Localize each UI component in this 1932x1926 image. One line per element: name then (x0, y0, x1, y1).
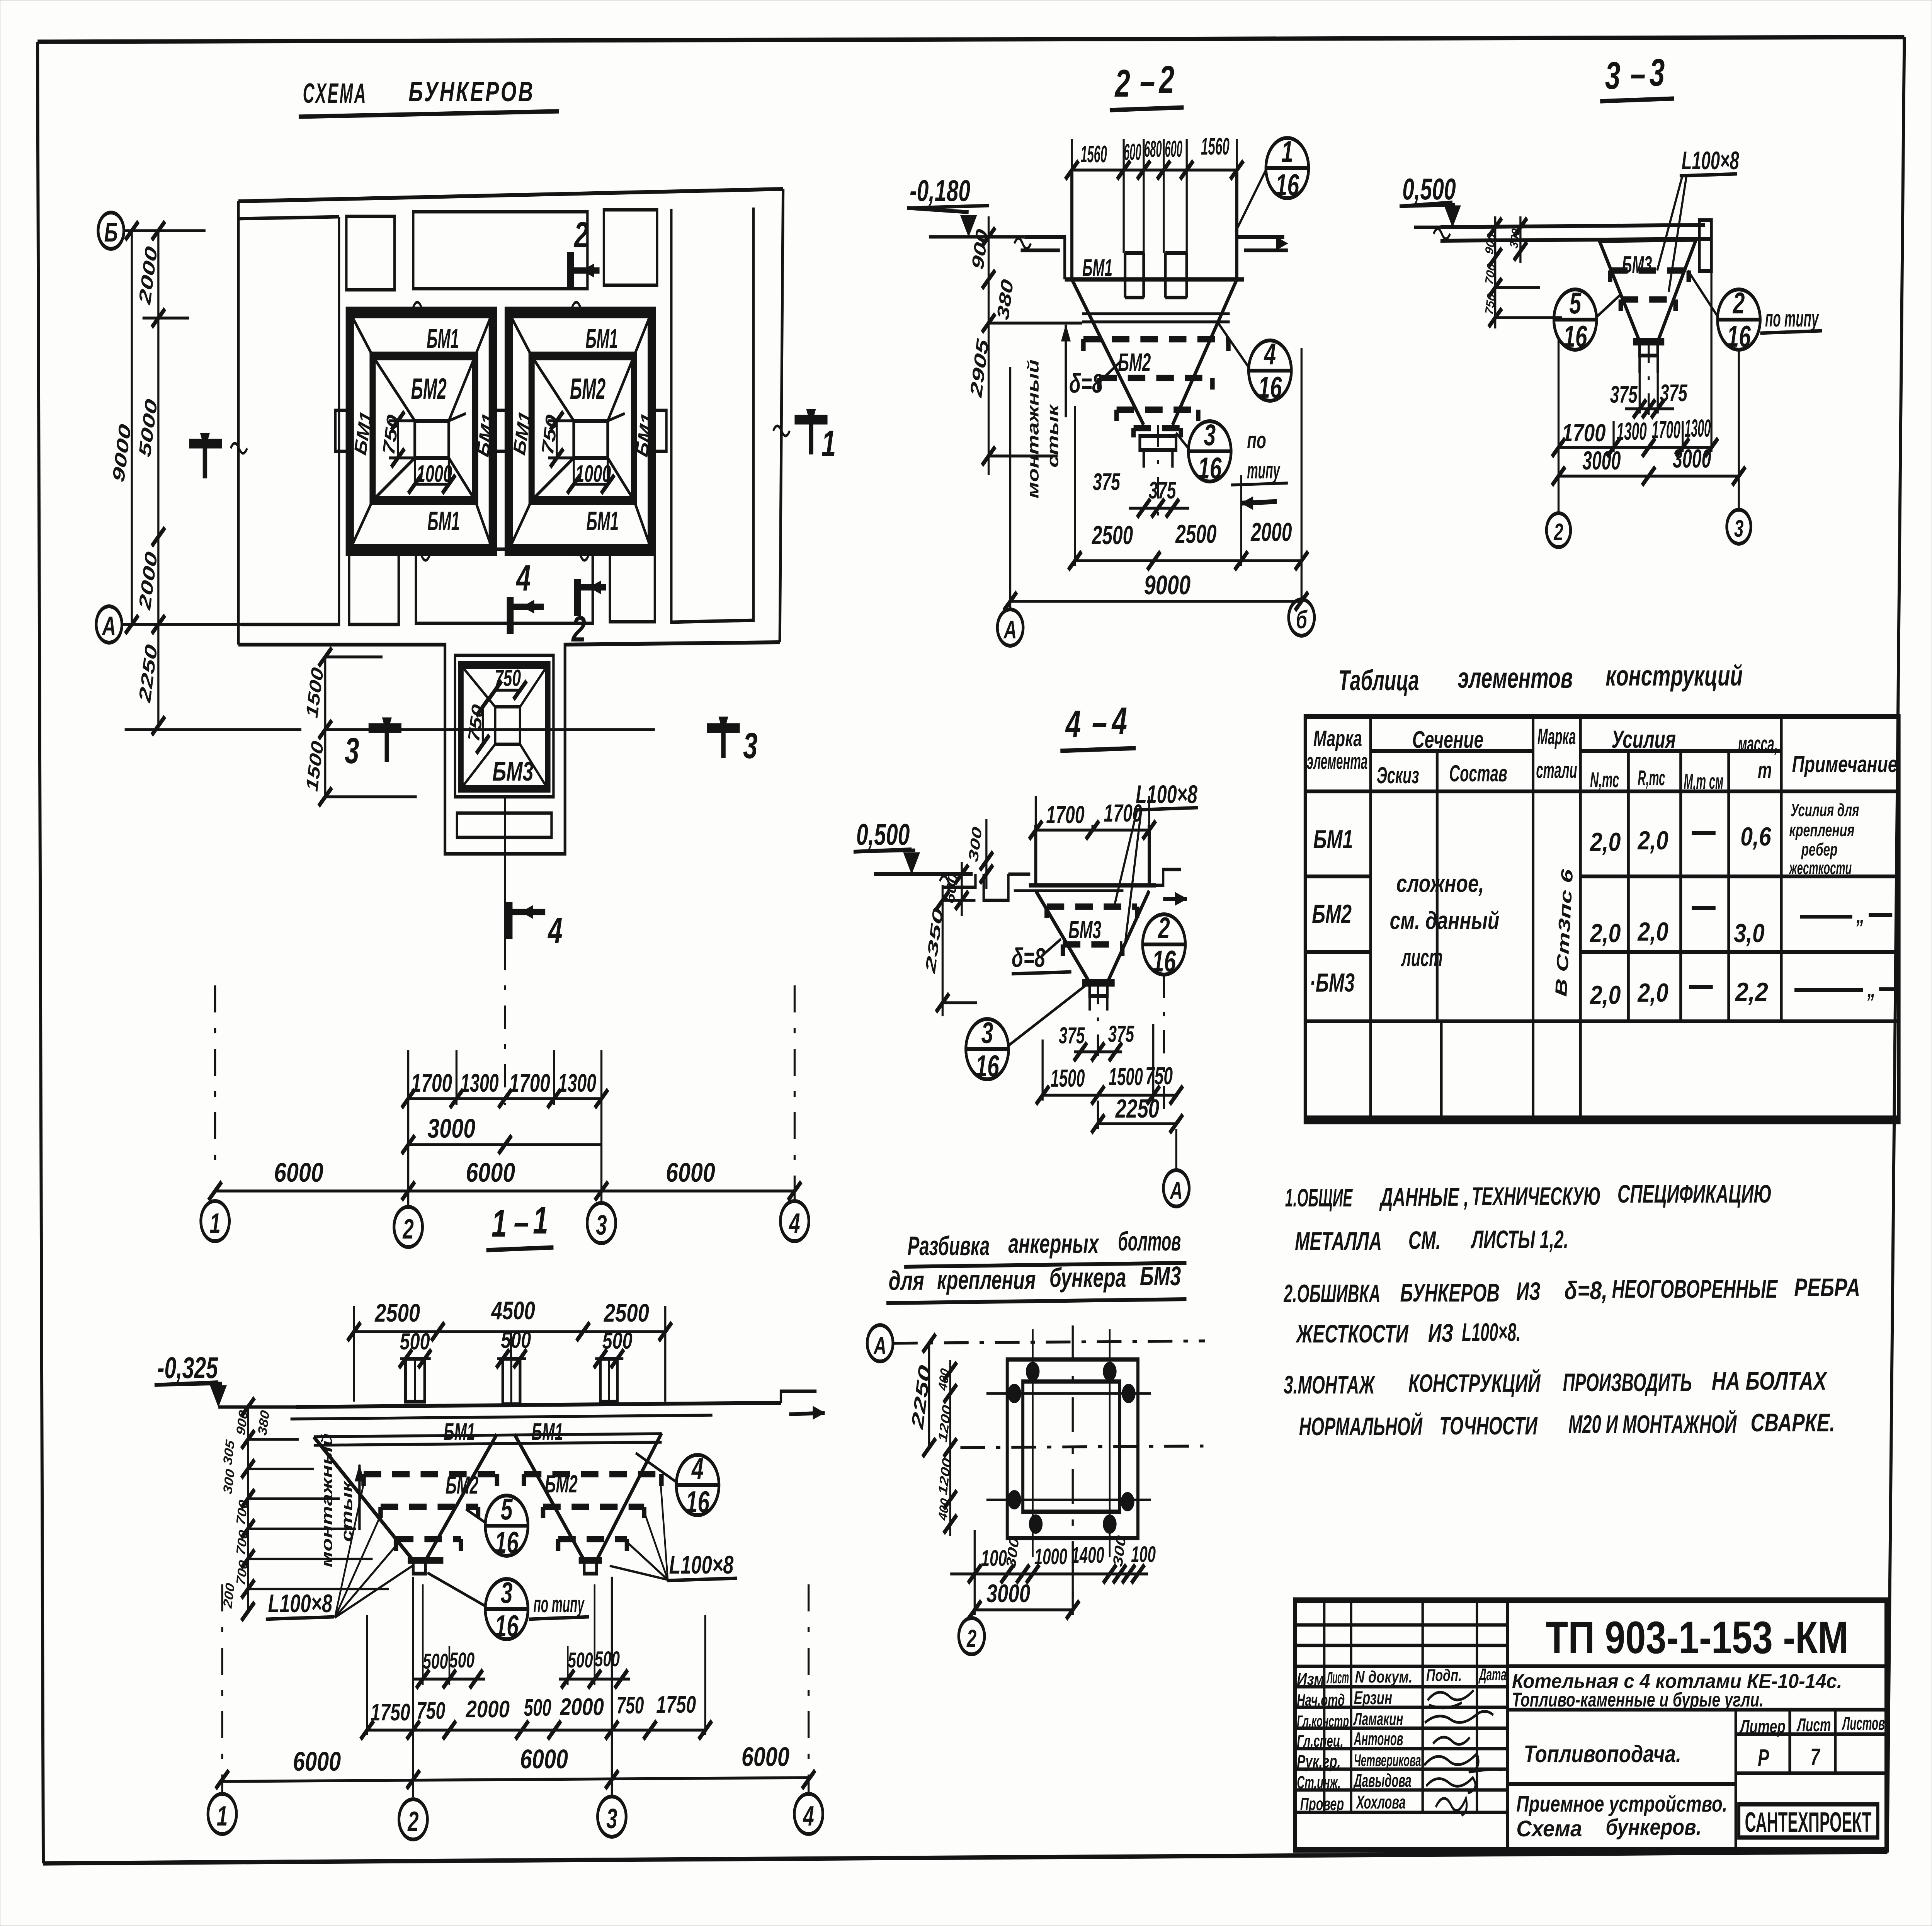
section 3 mark right (707, 723, 740, 733)
2-2 level line (929, 235, 1024, 239)
svg-text:16: 16 (686, 1485, 710, 1519)
title block big cell lines (1508, 1664, 1887, 1668)
svg-text:1400: 1400 (1071, 1542, 1104, 1568)
svg-text:Гл.спец.: Гл.спец. (1297, 1732, 1344, 1751)
svg-text:Приемное устройство.: Приемное устройство. (1516, 1791, 1727, 1817)
1-1 hopper tops thin lines (314, 1434, 662, 1437)
svg-text:стали: стали (1536, 757, 1577, 783)
svg-text:крепления: крепления (1789, 821, 1855, 840)
svg-text:Топливо-каменные и бурые угли.: Топливо-каменные и бурые угли. (1512, 1688, 1764, 1711)
bunker corner diagonals of opening (350, 313, 372, 356)
svg-text:Лист: Лист (1327, 1668, 1349, 1688)
svg-text:7: 7 (1810, 1744, 1820, 1771)
2-2 hopper top plates (1082, 312, 1230, 315)
svg-text:болтов: болтов (1118, 1226, 1181, 1256)
sheet border frame top (37, 37, 1904, 42)
svg-text:1750: 1750 (371, 1699, 410, 1726)
3-3 hopper walls (1599, 241, 1639, 342)
svg-text:δ=8,: δ=8, (1564, 1276, 1607, 1305)
svg-text:900: 900 (1483, 232, 1498, 255)
svg-text:Р: Р (1758, 1745, 1769, 1771)
svg-text:3: 3 (501, 1576, 513, 1610)
svg-text:БМ1: БМ1 (587, 506, 619, 536)
anchor plan bolt axis lines horizontal (986, 1392, 1151, 1395)
3-3 dim chain 1700/1300/1700/1300 (1557, 340, 1560, 514)
svg-text:БМ2: БМ2 (570, 372, 605, 405)
bunker opening thin edge (506, 308, 655, 554)
svg-text:1750: 1750 (656, 1691, 696, 1718)
svg-text:–: – (514, 1201, 529, 1244)
2-2 stiffener row 3 (1114, 410, 1120, 421)
svg-text:Антонов: Антонов (1354, 1728, 1403, 1749)
svg-text:3000: 3000 (986, 1579, 1031, 1608)
svg-text:0,500: 0,500 (856, 818, 910, 852)
svg-text:„: „ (1856, 902, 1864, 928)
dim 1000 horizontal inside bunker (415, 483, 449, 486)
svg-text:ИЗ: ИЗ (1516, 1277, 1540, 1306)
4-4 bin walls above (1034, 825, 1038, 885)
svg-text:L100×8: L100×8 (669, 1551, 734, 1579)
svg-text:1700: 1700 (1104, 799, 1142, 827)
svg-text:16: 16 (975, 1050, 999, 1083)
svg-text:2500: 2500 (1175, 520, 1216, 549)
table bottom area verticals (1439, 1021, 1443, 1122)
svg-text:жесткости: жесткости (1789, 859, 1852, 878)
svg-text:БМ2: БМ2 (446, 1471, 478, 1499)
svg-text:300: 300 (1507, 227, 1522, 249)
anchor plan centre lines (960, 1446, 1203, 1448)
svg-text:элементов: элементов (1458, 662, 1573, 694)
svg-text:δ=8: δ=8 (1012, 943, 1045, 973)
svg-text:δ=8: δ=8 (1069, 368, 1103, 398)
plan bottom small panel right (610, 550, 655, 622)
1-1 floor slab line (296, 1403, 781, 1407)
svg-text:1300: 1300 (558, 1069, 596, 1097)
svg-text:Разбивка: Разбивка (908, 1231, 990, 1261)
1-1 grid circles 1-4 (221, 1584, 224, 1793)
svg-text:Усилия для: Усилия для (1791, 801, 1859, 820)
anchor plan axis А circle (867, 1325, 893, 1361)
plan left slab panel (241, 217, 339, 624)
svg-text:2,2: 2,2 (1735, 978, 1768, 1007)
2-2 grid circle б (1300, 348, 1303, 599)
section 1 mark right of plan (794, 415, 827, 425)
plan grid circle 2 (394, 1207, 423, 1247)
svg-text:элемента: элемента (1307, 749, 1367, 774)
table column lines (1369, 716, 1372, 1122)
2-2 inner opening stubs (1123, 253, 1127, 298)
4-4 bin bottom flange (1029, 883, 1156, 887)
dim 750 vertical inside bunker (555, 421, 558, 458)
3-3 floor slab (1440, 225, 1705, 227)
svg-text:Давыдова: Давыдова (1353, 1770, 1412, 1791)
svg-text:СВАРКЕ.: СВАРКЕ. (1751, 1409, 1835, 1437)
svg-text:2000: 2000 (560, 1694, 604, 1720)
svg-text:Усилия: Усилия (1611, 725, 1676, 753)
svg-text:монтажный: монтажный (318, 1433, 335, 1567)
svg-text:4: 4 (1065, 703, 1081, 746)
svg-text:Топливоподача.: Топливоподача. (1524, 1741, 1681, 1768)
svg-text:типу: типу (1247, 458, 1281, 484)
svg-text:0,6: 0,6 (1740, 822, 1772, 851)
svg-text:Примечание: Примечание (1792, 752, 1898, 778)
svg-text:2: 2 (966, 1625, 976, 1652)
svg-text:500: 500 (524, 1695, 551, 1721)
svg-text:5: 5 (501, 1493, 513, 1526)
plan top small panel right (604, 210, 657, 285)
anchor plan bottom dim chain 100/300/1000/1400/300/100 (973, 1530, 976, 1615)
4-4 stiffener row 1 (1044, 907, 1050, 918)
svg-text:3: 3 (981, 1016, 993, 1050)
svg-text:масса,: масса, (1738, 731, 1778, 757)
bunker БМ2 outer shell (thick) (509, 313, 651, 549)
plan bottom small panel left (349, 552, 398, 624)
dim 750 vertical inside bunker (396, 421, 400, 458)
bunker БМ2 outer shell (thick) (350, 313, 492, 549)
4-4 floor connector to bin (1009, 873, 1031, 876)
bunker hopper pyramid diagonals (532, 356, 574, 421)
logo box САНТЕХПРОЕКТ (1739, 1804, 1878, 1838)
2-2 callout 3/16 with по типу (1188, 421, 1231, 481)
2-2 floor slab right (1237, 235, 1284, 239)
svg-text:-0,325: -0,325 (157, 1351, 218, 1385)
svg-text:1: 1 (821, 423, 836, 464)
svg-text:Ламакин: Ламакин (1353, 1710, 1403, 1729)
svg-text:ТЕХНИЧЕСКУЮ: ТЕХНИЧЕСКУЮ (1472, 1182, 1601, 1211)
plan slab second top line (238, 217, 339, 219)
section 3-3 cut line through pit (125, 728, 301, 731)
dim 9000 line (130, 231, 133, 624)
БМ3 dim 750 vertical (481, 707, 485, 744)
svg-text:ИЗ: ИЗ (1428, 1319, 1453, 1348)
4-4 callout 3/16 (966, 1019, 1009, 1079)
svg-text:БМ2: БМ2 (545, 1470, 578, 1498)
plan grid circle 3 (587, 1203, 616, 1243)
title block vertical lines left part (1323, 1600, 1326, 1812)
svg-text:Провер: Провер (1300, 1795, 1344, 1814)
plan top wide panel (413, 212, 587, 289)
svg-text:600: 600 (1165, 136, 1182, 162)
sheet border frame bottom (43, 1852, 1887, 1863)
plan right slab panel (671, 208, 753, 622)
3-3 neck flange (1633, 338, 1664, 345)
1-1 right hopper walls (515, 1434, 584, 1560)
svg-text:НА БОЛТАХ: НА БОЛТАХ (1712, 1367, 1828, 1395)
bunker БМ2 inner rim (thick) (532, 356, 634, 500)
svg-text:1500: 1500 (1109, 1063, 1143, 1091)
svg-text:2500: 2500 (374, 1299, 420, 1327)
svg-text:ПРОИЗВОДИТЬ: ПРОИЗВОДИТЬ (1563, 1368, 1692, 1397)
svg-text:3: 3 (345, 730, 359, 771)
svg-text:500: 500 (568, 1648, 593, 1672)
2-2 БМ1 level line (1065, 277, 1244, 281)
svg-text:700: 700 (1483, 262, 1498, 286)
1-1 right hopper stiffener rows (521, 1474, 527, 1486)
plan dim 3000 (408, 1143, 602, 1146)
4-4 left dim chain 300/600/2350 (985, 819, 988, 889)
dim chain 2000/5000/2000 line (157, 231, 160, 624)
svg-text:1700: 1700 (1652, 416, 1681, 444)
svg-text:БМ2: БМ2 (411, 372, 447, 405)
1-1 left hopper walls (314, 1437, 413, 1560)
svg-text:анкерных: анкерных (1009, 1228, 1100, 1259)
svg-text:СХЕМА: СХЕМА (303, 78, 367, 109)
svg-text:2: 2 (1732, 287, 1745, 320)
svg-text:–: – (1140, 60, 1155, 103)
svg-text:2500: 2500 (1092, 521, 1133, 550)
svg-text:500: 500 (423, 1649, 448, 1673)
svg-text:Лист: Лист (1796, 1714, 1831, 1735)
svg-text:БУНКЕРОВ: БУНКЕРОВ (1400, 1279, 1500, 1307)
3-3 grid circle 3 (1737, 350, 1740, 510)
svg-text:КОНСТРУКЦИЙ: КОНСТРУКЦИЙ (1408, 1368, 1541, 1398)
svg-text:Марка: Марка (1313, 726, 1362, 751)
svg-text:Ст.инж.: Ст.инж. (1297, 1773, 1340, 1793)
svg-text:А: А (102, 611, 116, 641)
svg-text:по типу: по типу (1765, 306, 1819, 332)
svg-text:2250: 2250 (1115, 1094, 1160, 1123)
svg-text:БМ3: БМ3 (1622, 252, 1652, 278)
table row lines (1580, 875, 1899, 878)
bunker hopper outlet square (574, 421, 608, 458)
anchor plan outer square (1007, 1359, 1138, 1538)
svg-text:бункера: бункера (1049, 1262, 1126, 1293)
svg-text:2: 2 (571, 609, 586, 650)
svg-text:стык: стык (1044, 403, 1062, 468)
table header lines (1371, 749, 1533, 753)
1-1 left hopper stiffener rows (361, 1474, 367, 1486)
svg-text:1000: 1000 (417, 461, 452, 487)
svg-text:750: 750 (495, 665, 521, 691)
БМ3 dim 750 horizontal (495, 689, 520, 692)
anchor plan left dim chain 400/1200/1200/400 (949, 1360, 952, 1536)
svg-text:1560: 1560 (1081, 141, 1107, 168)
svg-text:5: 5 (1569, 287, 1582, 320)
svg-text:750: 750 (417, 1698, 446, 1724)
title block outer box (1295, 1600, 1886, 1850)
svg-text:сложное,: сложное, (1396, 869, 1484, 897)
svg-text:500: 500 (449, 1648, 474, 1672)
svg-text:по: по (1247, 428, 1266, 454)
4-4 hopper walls (1036, 891, 1090, 983)
anchor plan dim 2250 left (928, 1343, 931, 1448)
1-1 columns above slab (405, 1359, 425, 1402)
svg-text:3: 3 (596, 1210, 607, 1241)
svg-text:А: А (1169, 1177, 1182, 1205)
svg-text:1300: 1300 (1685, 414, 1711, 442)
dim 1500/1500 at pit (324, 657, 327, 797)
svg-text:–: – (1630, 53, 1645, 95)
svg-text:16: 16 (1276, 168, 1299, 202)
svg-text:МЕТАЛЛА: МЕТАЛЛА (1295, 1227, 1382, 1256)
svg-text:2,0: 2,0 (1637, 826, 1668, 855)
svg-text:2: 2 (1553, 519, 1563, 546)
section 2 mark lower (573, 579, 582, 616)
2-2 hopper left wall (1072, 279, 1144, 425)
svg-text:375: 375 (1610, 381, 1638, 408)
svg-text:L100×8: L100×8 (1682, 146, 1739, 175)
2-2 floor slab left (1024, 237, 1065, 279)
edge break marks (413, 302, 430, 312)
svg-text:6000: 6000 (274, 1157, 323, 1188)
svg-text:„: „ (1867, 977, 1876, 1002)
svg-text:1: 1 (209, 1208, 220, 1239)
svg-text:1: 1 (217, 1801, 228, 1832)
anchor bolts (8) (1027, 1363, 1039, 1380)
svg-text:16: 16 (495, 1610, 519, 1643)
svg-text:А: А (873, 1332, 886, 1359)
sheet border frame left (37, 42, 43, 1863)
svg-text:2,0: 2,0 (1637, 978, 1668, 1007)
2-2 stiffener row 1 (1080, 339, 1087, 351)
svg-text:БУНКЕРОВ: БУНКЕРОВ (408, 77, 534, 108)
svg-text:2,0: 2,0 (1590, 981, 1621, 1010)
svg-text:см. данный: см. данный (1390, 907, 1500, 934)
svg-text:2: 2 (403, 1214, 414, 1245)
axis А line (122, 623, 241, 626)
svg-text:2: 2 (1157, 912, 1170, 945)
svg-text:1000: 1000 (1034, 1544, 1067, 1569)
svg-text:16: 16 (1152, 945, 1176, 978)
svg-text:2: 2 (1114, 62, 1130, 105)
4-4 dim 1700/1700 top (1034, 796, 1037, 825)
svg-text:4: 4 (515, 558, 531, 599)
svg-text:БМ3: БМ3 (1068, 916, 1101, 944)
svg-text:N,тс: N,тс (1590, 768, 1619, 792)
svg-text:Таблица: Таблица (1338, 664, 1419, 696)
svg-text:3: 3 (1204, 419, 1216, 452)
1-1 callout 3/16 with по типу (485, 1579, 528, 1639)
svg-text:А: А (1003, 616, 1017, 644)
4-4 stiffener row 2 (1060, 944, 1066, 956)
3-3 hopper top flange (1599, 240, 1696, 241)
plan outer slab boundary (238, 189, 783, 201)
signatures squiggles (1428, 1690, 1474, 1708)
svg-text:1300: 1300 (1617, 417, 1647, 445)
svg-text:ЛИСТЫ 1,2.: ЛИСТЫ 1,2. (1471, 1225, 1568, 1254)
svg-text:ТП 903-1-153 -КМ: ТП 903-1-153 -КМ (1546, 1612, 1849, 1663)
4-4 grid circle А (1175, 1129, 1178, 1170)
svg-text:Подп.: Подп. (1426, 1666, 1462, 1685)
grid axis Б circle (98, 213, 124, 249)
svg-text:Дата: Дата (1478, 1665, 1507, 1684)
svg-text:L100×8.: L100×8. (1462, 1318, 1520, 1347)
bunker corner diagonals of opening (509, 313, 531, 356)
svg-text:100: 100 (1131, 1541, 1156, 1567)
svg-text:2500: 2500 (604, 1299, 649, 1327)
2-2 bin walls (1070, 172, 1074, 279)
svg-text:СМ.: СМ. (1408, 1226, 1441, 1255)
kink line to outlet (449, 413, 466, 421)
dim 1000 horizontal inside bunker (574, 483, 608, 486)
anchor plan grid circle 2 (959, 1618, 985, 1654)
svg-text:4: 4 (1111, 700, 1127, 743)
3-3 grid circle 2 (1557, 513, 1560, 514)
1-1 top dim chain 2500/4500/2500 (352, 1306, 355, 1402)
svg-text:Рук.гр.: Рук.гр. (1297, 1752, 1340, 1772)
svg-text:16: 16 (1258, 371, 1282, 405)
svg-text:3000: 3000 (1582, 446, 1621, 475)
svg-text:т: т (1758, 757, 1772, 783)
svg-text:лист: лист (1401, 944, 1443, 972)
svg-text:4: 4 (789, 1208, 800, 1239)
svg-text:ЖЕСТКОСТИ: ЖЕСТКОСТИ (1295, 1320, 1409, 1348)
БМ3 pit outline thin (455, 655, 554, 797)
svg-text:R,тс: R,тс (1638, 766, 1665, 790)
4-4 dim 2250 (1097, 1101, 1100, 1129)
svg-text:2000: 2000 (1250, 518, 1292, 547)
svg-text:6000: 6000 (666, 1157, 715, 1188)
svg-text:2000: 2000 (466, 1696, 510, 1723)
svg-text:БМ1: БМ1 (427, 506, 460, 536)
svg-text:L100×8: L100×8 (268, 1589, 333, 1618)
svg-text:375: 375 (1093, 469, 1121, 495)
svg-text:1: 1 (1281, 135, 1293, 169)
БМ3 pyramid diagonals (461, 665, 495, 707)
svg-text:N докум.: N докум. (1355, 1667, 1413, 1687)
svg-text:по типу: по типу (534, 1592, 585, 1618)
svg-text:4: 4 (803, 1801, 814, 1832)
svg-text:600: 600 (1124, 140, 1141, 165)
2-2 hopper right wall (1172, 279, 1237, 425)
svg-text:375: 375 (1059, 1023, 1085, 1049)
3-3 stiffener row 2 (1617, 299, 1624, 311)
sheet border frame right (1887, 37, 1904, 1852)
svg-text:конструкций: конструкций (1605, 660, 1743, 692)
svg-text:НЕОГОВОРЕННЫЕ: НЕОГОВОРЕННЫЕ (1612, 1275, 1778, 1303)
axis Б line (124, 229, 206, 232)
svg-text:Хохлова: Хохлова (1356, 1792, 1406, 1812)
2-2 dim chain 2500/2500/2000 (1073, 406, 1077, 566)
4-4 callout 2/16 (1143, 914, 1185, 975)
svg-text:крепления: крепления (937, 1265, 1036, 1295)
svg-text:2: 2 (1158, 58, 1174, 101)
svg-text:б: б (1296, 606, 1308, 634)
svg-text:БМ1: БМ1 (1082, 255, 1112, 281)
svg-text:Эскиз: Эскиз (1377, 763, 1419, 789)
3-3 left dim chain 900/700/750 + 300 (1494, 216, 1497, 328)
svg-text:6000: 6000 (742, 1742, 789, 1772)
svg-text:680: 680 (1144, 136, 1162, 162)
svg-text:БМ1: БМ1 (1313, 825, 1353, 854)
svg-text:3000: 3000 (1673, 444, 1711, 473)
svg-text:БМ3: БМ3 (492, 756, 534, 786)
svg-text:ТОЧНОСТИ: ТОЧНОСТИ (1439, 1412, 1538, 1440)
svg-text:750: 750 (1145, 1062, 1173, 1090)
svg-text:М20 И МОНТАЖНОЙ: М20 И МОНТАЖНОЙ (1568, 1409, 1737, 1439)
svg-text:Листов: Листов (1842, 1713, 1885, 1734)
section 4 mark below pit (504, 902, 514, 939)
4-4 level/floor lines (874, 872, 973, 876)
svg-text:Литер: Литер (1739, 1716, 1786, 1737)
4-4 dim chain 1500/1500/750 (1041, 1040, 1044, 1101)
svg-text:1300: 1300 (460, 1069, 498, 1097)
svg-text:1: 1 (533, 1199, 548, 1242)
2-2 callout 1/16 (1266, 138, 1309, 198)
svg-text:4: 4 (691, 1452, 703, 1486)
2-2 top dim chain 1560/600/680/600/1560 (1070, 139, 1073, 172)
3-3 right wall block (1699, 220, 1711, 271)
1-1 left neck (408, 1557, 443, 1564)
2-2 callout 4/16 (1248, 340, 1291, 401)
2-2 dim 9000 (1010, 600, 1302, 603)
svg-text:500: 500 (400, 1329, 430, 1355)
kink line to outlet (608, 413, 625, 421)
svg-text:16: 16 (495, 1526, 519, 1560)
svg-text:4: 4 (548, 910, 563, 951)
title block left horizontal rows (1295, 1623, 1507, 1627)
svg-text:L100×8: L100×8 (1136, 780, 1197, 809)
